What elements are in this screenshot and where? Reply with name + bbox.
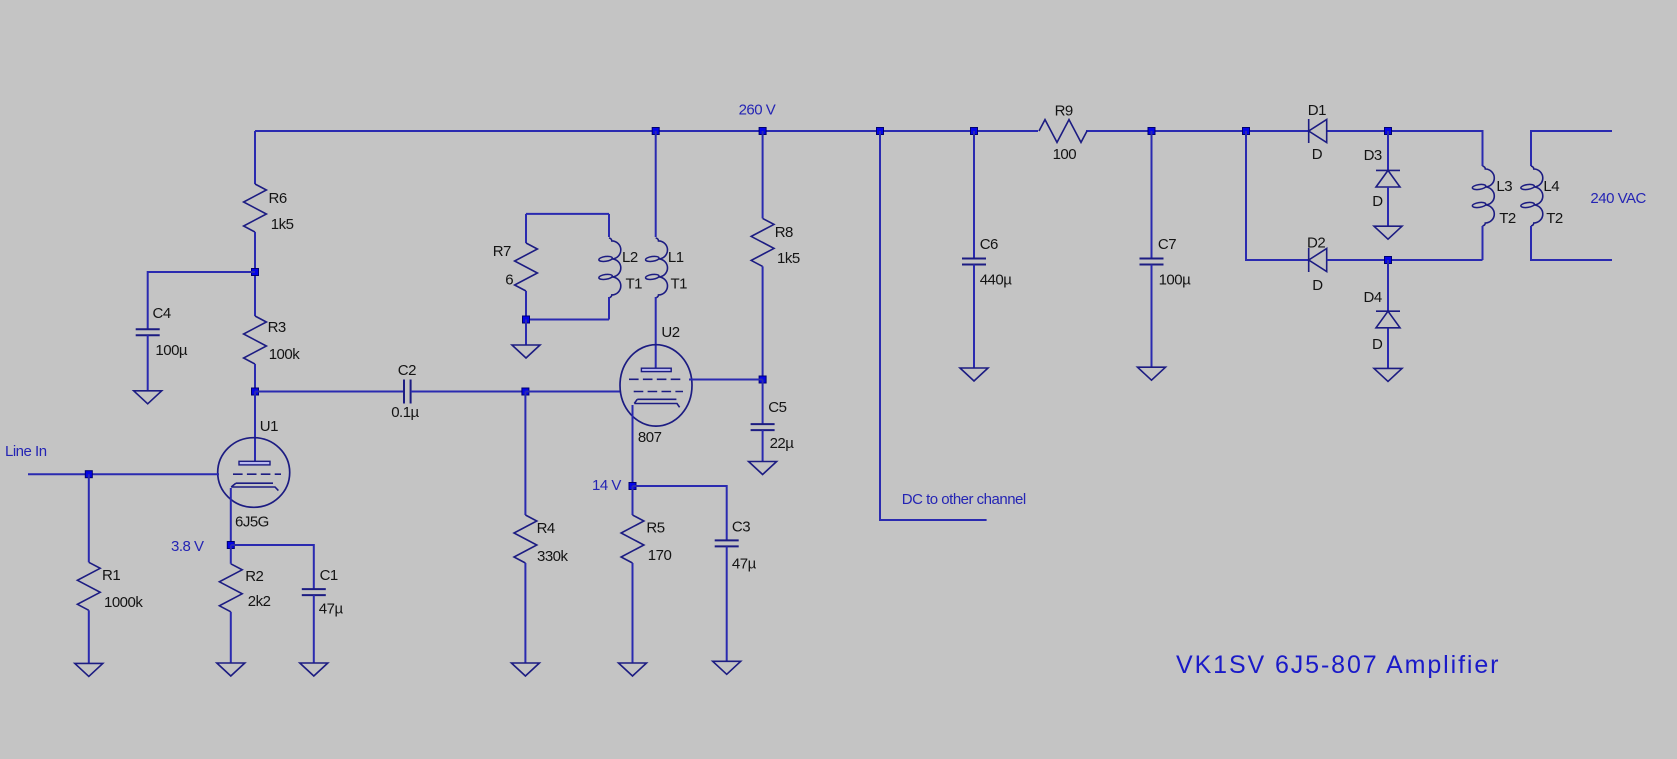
- diode D3: [1364, 147, 1400, 210]
- svg-text:L4: L4: [1543, 178, 1559, 195]
- ground R5 ground: [619, 663, 647, 676]
- node M C7 rail: [1148, 128, 1155, 135]
- wire node B to C2: [255, 391, 404, 393]
- inductor L4: [1521, 166, 1563, 227]
- svg-text:Line In: Line In: [5, 443, 47, 460]
- svg-text:47µ: 47µ: [732, 556, 757, 573]
- svg-text:260 V: 260 V: [739, 101, 776, 118]
- wire R8 to node I: [762, 266, 764, 379]
- node O D1-D3-L3 top: [1385, 128, 1392, 135]
- svg-text:R4: R4: [537, 520, 555, 537]
- svg-text:C6: C6: [980, 236, 998, 253]
- capacitor C6: [962, 236, 1012, 288]
- svg-text:1000k: 1000k: [104, 594, 143, 611]
- wire line in to U1 grid: [28, 473, 219, 475]
- svg-text:14 V: 14 V: [592, 477, 621, 494]
- svg-text:T1: T1: [671, 276, 688, 293]
- svg-text:1k5: 1k5: [777, 250, 800, 267]
- capacitor C2: [391, 362, 419, 421]
- resistor R4: [514, 515, 569, 565]
- resistor R2: [219, 564, 270, 612]
- wire node E to R2: [230, 545, 232, 564]
- ground D3 ground: [1374, 226, 1402, 239]
- node J cathode 14V: [629, 483, 636, 490]
- wire node I to C5: [762, 380, 764, 425]
- wire node C to U2 grid: [525, 391, 620, 393]
- svg-text:D: D: [1312, 277, 1323, 294]
- svg-text:L1: L1: [668, 249, 684, 266]
- wire C1 to ground: [313, 595, 315, 663]
- wire node J to R5: [632, 486, 634, 515]
- svg-text:D: D: [1372, 336, 1383, 353]
- svg-text:L3: L3: [1496, 178, 1512, 195]
- svg-text:L2: L2: [622, 249, 638, 266]
- inductor L3: [1472, 166, 1516, 227]
- node N rectifier top left: [1243, 128, 1250, 135]
- svg-text:100: 100: [1053, 146, 1077, 163]
- wire R7-L2 bottom: [526, 319, 609, 321]
- node D line in junction: [85, 471, 92, 478]
- resistor R1: [77, 562, 143, 611]
- ground R1 ground: [75, 663, 103, 676]
- wire rail to C6: [973, 131, 975, 259]
- svg-text:22µ: 22µ: [770, 435, 795, 452]
- node C C2-R4-U2 grid: [522, 388, 529, 395]
- resistor R6: [244, 184, 294, 233]
- resistor R3: [244, 316, 301, 364]
- wire node A to C4: [148, 272, 255, 329]
- inductor L1: [645, 238, 687, 298]
- svg-text:R3: R3: [268, 319, 286, 336]
- wire R4 to ground: [524, 563, 526, 663]
- node A R6-R3-C4: [252, 269, 259, 276]
- svg-text:D: D: [1312, 146, 1323, 163]
- svg-text:330k: 330k: [537, 548, 569, 565]
- ground C4 ground: [134, 391, 162, 404]
- svg-text:240 VAC: 240 VAC: [1590, 190, 1646, 207]
- wire R3 to node B: [254, 364, 256, 392]
- wire node B to U1 plate: [254, 392, 256, 463]
- svg-text:R5: R5: [646, 519, 664, 536]
- wire node N down to D2 row: [1246, 131, 1309, 260]
- svg-text:170: 170: [648, 547, 672, 564]
- svg-text:100k: 100k: [269, 346, 301, 363]
- svg-text:100µ: 100µ: [155, 342, 188, 359]
- wire D3 to ground: [1387, 187, 1389, 226]
- node P D2-D4-L3 bottom: [1385, 257, 1392, 264]
- wire C7 to ground: [1151, 265, 1153, 368]
- op-amp U2 vacuum tube 807: [620, 324, 692, 446]
- wire node C to R4: [524, 392, 526, 516]
- wire L3 bottom lead: [1482, 226, 1484, 260]
- ground R2 ground: [217, 663, 245, 676]
- wire C3 to ground: [726, 546, 728, 661]
- svg-text:C5: C5: [768, 399, 786, 416]
- svg-text:U2: U2: [661, 324, 679, 341]
- svg-text:807: 807: [638, 429, 662, 446]
- wire U1 cathode to node E: [230, 488, 232, 545]
- node L C6 rail: [971, 128, 978, 135]
- svg-text:100µ: 100µ: [1159, 271, 1192, 288]
- svg-text:440µ: 440µ: [980, 271, 1013, 288]
- wire L1 to U2 plate: [655, 297, 657, 369]
- wire U2 cathode to node J: [632, 405, 634, 486]
- wire U2 screen to node I: [689, 379, 763, 381]
- svg-text:D4: D4: [1364, 289, 1382, 306]
- capacitor C3: [715, 519, 757, 573]
- svg-text:U1: U1: [260, 418, 278, 435]
- wire R6 to R3: [254, 232, 256, 316]
- wire top to R7: [525, 214, 527, 243]
- wire R1 to ground: [88, 610, 90, 663]
- wire R5 to ground: [632, 563, 634, 663]
- node B R3-C2-U1 plate: [252, 388, 259, 395]
- svg-text:D: D: [1372, 193, 1383, 210]
- capacitor C1: [302, 567, 344, 618]
- wire R7-L2 top: [526, 213, 609, 215]
- svg-text:6: 6: [505, 271, 513, 288]
- wire L2 top lead: [608, 214, 610, 237]
- svg-text:DC to other channel: DC to other channel: [902, 491, 1026, 508]
- wire C2 to node C: [411, 391, 526, 393]
- capacitor C5: [751, 399, 795, 452]
- capacitor C4: [136, 305, 188, 359]
- svg-text:T2: T2: [1546, 210, 1563, 227]
- wire 260V rail left section: [255, 130, 1038, 132]
- ground C7 ground: [1138, 367, 1166, 380]
- wire C6 to ground: [973, 265, 975, 369]
- wire L2 bottom lead: [608, 297, 610, 320]
- ground D4 ground: [1374, 368, 1402, 381]
- ground C1 ground: [300, 663, 328, 676]
- svg-text:T1: T1: [626, 276, 643, 293]
- wire node F to ground: [525, 320, 527, 346]
- ground C3 ground: [713, 661, 741, 674]
- svg-text:R9: R9: [1055, 102, 1073, 119]
- svg-text:C1: C1: [320, 567, 338, 584]
- wire R2 to ground: [230, 612, 232, 663]
- svg-text:R6: R6: [269, 190, 287, 207]
- diode D4: [1364, 289, 1401, 353]
- diode D2: [1307, 235, 1327, 294]
- wire node O to D3: [1387, 131, 1389, 170]
- ground C5 ground: [749, 462, 777, 475]
- wire node P to D4: [1387, 260, 1389, 311]
- svg-text:D2: D2: [1307, 235, 1325, 252]
- op-amp U1 vacuum tube 6J5G triode: [218, 418, 290, 531]
- wire L4 top stub: [1531, 131, 1612, 166]
- node H R8 rail: [759, 128, 766, 135]
- svg-text:0.1µ: 0.1µ: [391, 404, 419, 421]
- svg-text:R8: R8: [775, 224, 793, 241]
- capacitor C7: [1140, 236, 1192, 288]
- node E cathode 3.8V: [227, 542, 234, 549]
- wire 260V rail middle section: [1086, 130, 1309, 132]
- diode D1: [1308, 102, 1327, 163]
- svg-text:R7: R7: [493, 243, 511, 260]
- wire R7 to node F: [525, 291, 527, 320]
- wire C5 to ground: [762, 430, 764, 461]
- svg-text:C3: C3: [732, 519, 750, 536]
- wire D2 to L3 bottom: [1327, 259, 1483, 261]
- svg-text:D1: D1: [1308, 102, 1326, 119]
- inductor L2: [599, 238, 643, 298]
- svg-text:R1: R1: [102, 567, 120, 584]
- wire node J to C3: [633, 486, 727, 540]
- wire L4 bottom stub: [1531, 226, 1612, 260]
- node G L1 rail: [652, 128, 659, 135]
- wire rail to L1: [655, 131, 657, 237]
- resistor R9: [1039, 102, 1087, 163]
- svg-text:6J5G: 6J5G: [235, 514, 269, 531]
- wire node D to R1: [88, 474, 90, 562]
- wire rail to R8: [762, 131, 764, 218]
- svg-text:1k5: 1k5: [271, 216, 294, 233]
- ground R7 ground: [512, 345, 540, 358]
- wire C4 to ground: [147, 335, 149, 391]
- wire D4 to ground: [1387, 329, 1389, 369]
- wire 260V rail right section to L3: [1327, 131, 1483, 166]
- resistor R7: [493, 243, 538, 291]
- svg-text:R2: R2: [245, 568, 263, 585]
- svg-text:T2: T2: [1499, 210, 1516, 227]
- svg-text:C7: C7: [1158, 236, 1176, 253]
- svg-text:D3: D3: [1364, 147, 1382, 164]
- svg-text:VK1SV 6J5-807 Amplifier: VK1SV 6J5-807 Amplifier: [1176, 651, 1500, 679]
- ground C6 ground: [960, 368, 988, 381]
- resistor R8: [751, 218, 800, 267]
- node K DC branch: [877, 128, 884, 135]
- svg-text:3.8 V: 3.8 V: [171, 538, 204, 555]
- wire rail to R6: [254, 131, 256, 184]
- svg-text:C2: C2: [398, 362, 416, 379]
- wire rail to C7: [1151, 131, 1153, 259]
- svg-text:47µ: 47µ: [319, 601, 344, 618]
- ground R4 ground: [511, 663, 539, 676]
- svg-text:C4: C4: [153, 305, 171, 322]
- node F R7-L2 junction: [523, 316, 530, 323]
- wire node E to C1: [231, 545, 314, 589]
- node I screen node: [759, 376, 766, 383]
- svg-text:2k2: 2k2: [248, 593, 271, 610]
- wire DC to other channel: [880, 131, 987, 520]
- resistor R5: [621, 515, 671, 564]
